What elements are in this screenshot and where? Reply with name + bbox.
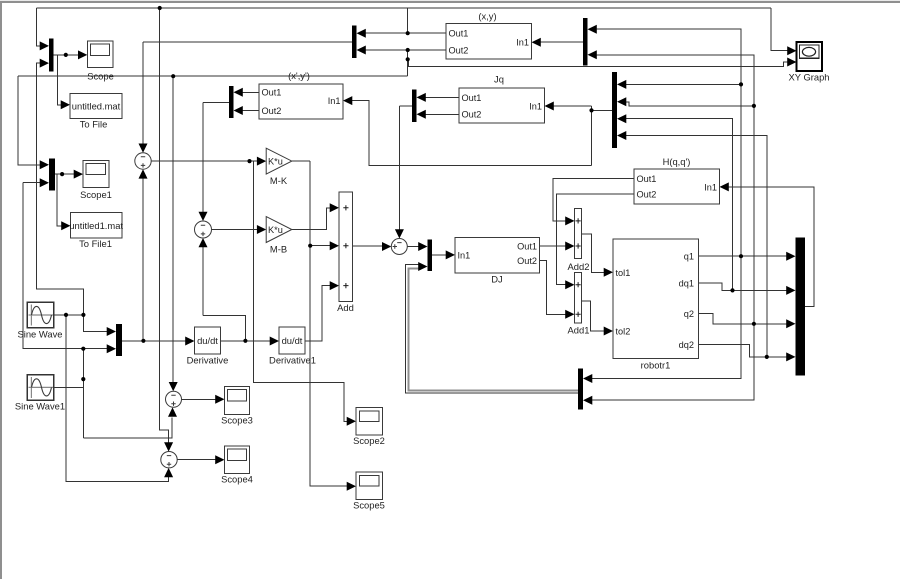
- svg-text:K*u: K*u: [268, 156, 283, 166]
- svg-text:Out2: Out2: [462, 110, 482, 120]
- svg-text:In1: In1: [328, 96, 341, 106]
- label Add: [337, 302, 354, 313]
- label Scope3: [221, 415, 253, 426]
- svg-text:M-B: M-B: [270, 243, 287, 254]
- label M-K: [270, 175, 288, 186]
- svg-text:To File1: To File1: [79, 238, 112, 249]
- wire M-B output to Add in1: [292, 208, 331, 230]
- wire Jq Out2 to mux7 in2: [426, 113, 460, 115]
- svg-text:q1: q1: [684, 252, 694, 262]
- svg-text:Derivative1: Derivative1: [269, 354, 316, 365]
- block Scope1: [83, 161, 109, 188]
- label Add1: [568, 324, 590, 335]
- wire net dq1: robotr1 dq1 to big mux in2 and MuxR in3: [626, 119, 788, 291]
- label DJ: [491, 274, 502, 285]
- wire MuxR output to Jq In1 and (x',y') In1: [352, 101, 613, 166]
- svg-text:Out2: Out2: [449, 45, 469, 55]
- label To File1: [79, 238, 112, 249]
- wire mux7 output to Sum3 top: [399, 106, 412, 231]
- block H(q,q') subsystem: [634, 169, 720, 204]
- wire DJ Out1 to Add2 in2: [540, 245, 567, 247]
- block Scope3: [225, 387, 250, 415]
- mux M2 scope1 mux: [49, 159, 55, 191]
- label Scope5: [353, 500, 385, 511]
- svg-text:Add2: Add2: [568, 261, 590, 272]
- sum S3: [391, 239, 407, 255]
- wire Sum5 output to Scope4: [177, 459, 216, 461]
- wire net q2: robotr1 q2 to big mux in3, MuxT in2, MuxR in2, MuxB in2: [592, 55, 788, 400]
- block Scope4: [225, 446, 250, 474]
- mux MBIG big right mux: [796, 238, 806, 376]
- wire net sine wave 1: to mux3 in2 rail and Sum4 plus: [55, 349, 173, 438]
- block Add: [339, 192, 353, 302]
- wire Sum1 output to M-K and Scope2 branch: [151, 161, 348, 421]
- svg-text:Scope3: Scope3: [221, 415, 253, 426]
- svg-text:untitled1.mat: untitled1.mat: [69, 220, 123, 231]
- ports (x',y'): [262, 88, 341, 116]
- svg-text:Scope2: Scope2: [353, 435, 385, 446]
- svg-text:Scope1: Scope1: [80, 189, 112, 200]
- mux M5 at (x,y): [352, 26, 357, 59]
- wire MuxT output to (x,y) In1: [540, 41, 583, 43]
- wire mux4 output to DJ In1: [432, 254, 447, 256]
- block Scope2: [356, 408, 383, 436]
- svg-text:Derivative: Derivative: [187, 354, 229, 365]
- label Sine Wave1: [15, 400, 65, 411]
- label Derivative: [187, 354, 229, 365]
- value du/dt Derivative1: [282, 335, 303, 346]
- wire net y: (x,y) Out2 to y=76 rail, Mux2 in1, Sum4 top, XY Graph in2: [18, 50, 788, 384]
- value du/dt Derivative: [197, 335, 218, 346]
- value untitled1.mat: [69, 220, 123, 231]
- wire net dq2: robotr1 dq2 to big mux in4 and MuxR in4: [626, 136, 788, 357]
- label Jq: [494, 74, 504, 85]
- ports H: [637, 174, 718, 200]
- wire net x: (x,y) Out1 to top rail, Mux1 in1, Sum5, XY Graph in1: [37, 8, 788, 444]
- label Derivative1: [269, 354, 316, 365]
- svg-text:To File: To File: [80, 118, 108, 129]
- wire MuxB output vector double line to mux4 in2: [406, 265, 578, 393]
- arrowheads right-pointing: [40, 41, 797, 490]
- block To File1 untitled1.mat: [71, 213, 123, 239]
- block Derivative1: [279, 327, 305, 354]
- svg-text:Out1: Out1: [262, 88, 282, 98]
- mux M6 at (x',y'): [229, 86, 234, 118]
- svg-text:Add1: Add1: [568, 324, 590, 335]
- label H(q,q'): [663, 156, 691, 167]
- wire Sum3 output to mux4 in1: [407, 246, 419, 248]
- svg-text:Scope: Scope: [87, 70, 114, 81]
- svg-text:K*u: K*u: [268, 225, 283, 235]
- wire H Out1 to Add2 in1: [553, 178, 634, 221]
- block Scope: [87, 41, 113, 67]
- block Scope5: [356, 472, 383, 500]
- block To File untitled.mat: [70, 94, 122, 119]
- svg-text:In1: In1: [704, 182, 717, 192]
- svg-text:tol2: tol2: [616, 326, 631, 336]
- wire Sum4 output to Scope3: [182, 398, 217, 400]
- label Add2: [568, 261, 590, 272]
- svg-text:Out1: Out1: [637, 174, 657, 184]
- wire M-K output to Add in2 and Scope5 branch: [292, 161, 348, 486]
- svg-text:XY Graph: XY Graph: [789, 72, 830, 83]
- svg-text:Sine Wave: Sine Wave: [18, 328, 63, 339]
- ports Jq: [462, 93, 543, 120]
- mux M7 at Jq: [412, 90, 417, 123]
- label To File: [80, 118, 108, 129]
- block Sine Wave: [27, 302, 54, 328]
- svg-text:Scope4: Scope4: [221, 474, 253, 485]
- svg-text:Scope5: Scope5: [353, 500, 385, 511]
- mux MB bottom feedback mux: [578, 369, 583, 410]
- label Scope: [87, 70, 114, 81]
- sum S2: [195, 221, 212, 238]
- sum S5: [161, 452, 177, 468]
- svg-text:tol1: tol1: [616, 268, 631, 278]
- wire Sum2 output to M-B: [212, 229, 259, 231]
- wire Derivative output branch to Sum2 plus: [203, 246, 245, 341]
- svg-text:Out2: Out2: [517, 256, 537, 266]
- wire DJ Out2 to Add1 in2: [540, 261, 567, 315]
- block XY Graph: [797, 42, 823, 71]
- svg-text:M-K: M-K: [270, 175, 288, 186]
- gain M-K: [266, 148, 292, 174]
- mux M4 before DJ: [428, 240, 433, 272]
- svg-text:(x,y): (x,y): [478, 11, 496, 22]
- ports DJ: [458, 241, 538, 266]
- svg-text:Sine Wave1: Sine Wave1: [15, 400, 65, 411]
- mux M3 sine mux: [116, 324, 122, 356]
- svg-text:In1: In1: [529, 101, 542, 111]
- block (x',y') subsystem: [259, 84, 343, 119]
- wire mux1 output to Scope and To File: [54, 55, 80, 105]
- wire net q1: robotr1 q1 to big mux in1, MuxT in1, MuxR in1, MuxB in1: [592, 29, 788, 378]
- block DJ: [455, 238, 540, 274]
- svg-text:du/dt: du/dt: [282, 335, 303, 346]
- label Scope2: [353, 435, 385, 446]
- label Sine Wave: [18, 328, 63, 339]
- svg-text:Out2: Out2: [262, 106, 282, 116]
- wire (x',y') Out2 to mux6 in2: [243, 110, 260, 112]
- wire (x',y') Out1 to mux6 in1: [243, 91, 260, 93]
- svg-text:Jq: Jq: [494, 74, 504, 85]
- wire Add2 output to robotr1 tol1: [582, 234, 606, 272]
- ports robotr1: [616, 252, 695, 350]
- svg-text:DJ: DJ: [491, 274, 502, 285]
- label Scope4: [221, 474, 253, 485]
- wire net mux2 in2 / mux3 in2 rail: [23, 183, 109, 349]
- sum S1: [135, 153, 151, 169]
- wire Jq Out1 to mux7 in1: [426, 96, 460, 98]
- svg-text:untitled.mat: untitled.mat: [72, 101, 121, 112]
- wire Add output to Sum3: [353, 245, 384, 247]
- label (x,y): [478, 11, 496, 22]
- svg-text:Out1: Out1: [517, 241, 537, 251]
- arrowheads down-pointing into sum junctions: [139, 144, 404, 452]
- label XY Graph: [789, 72, 830, 83]
- wire Add1 output to robotr1 tol2: [582, 301, 606, 331]
- svg-text:dq1: dq1: [679, 278, 694, 288]
- svg-text:In1: In1: [458, 250, 471, 260]
- wire mux6 output to Sum2 top: [203, 102, 229, 213]
- wire net sine wave: to mux1 in2, mux3 in1, Sum5 plus: [36, 63, 168, 481]
- label M-B: [270, 243, 287, 254]
- value untitled.mat: [72, 101, 121, 112]
- mux M1 top-left scope mux: [49, 39, 54, 72]
- block Derivative: [195, 327, 221, 354]
- wire H Out2 to Add1 in1: [557, 194, 635, 285]
- arrowheads left-pointing: [234, 25, 729, 405]
- sum S4: [166, 391, 182, 407]
- svg-text:robotr1: robotr1: [641, 360, 671, 371]
- block Add1: [575, 273, 582, 324]
- wire mux2 output to Scope1 and To File1: [55, 174, 75, 226]
- svg-text:(x',y'): (x',y'): [288, 70, 310, 81]
- block robotr1 subsystem: [613, 239, 699, 359]
- mux MR right 4-input mux: [612, 72, 617, 148]
- block Jq subsystem: [459, 88, 545, 123]
- svg-text:du/dt: du/dt: [197, 335, 218, 346]
- svg-text:q2: q2: [684, 309, 694, 319]
- svg-text:Out1: Out1: [462, 93, 482, 103]
- wire mux3 output to Derivative, Sum1 plus, Derivative1, Add in3: [122, 178, 331, 342]
- label (x',y'): [288, 70, 310, 81]
- block Sine Wave1: [27, 375, 54, 401]
- svg-text:In1: In1: [516, 38, 529, 48]
- block (x,y) subsystem: [446, 24, 532, 59]
- ports (x,y): [449, 29, 530, 56]
- label robotr1: [641, 360, 671, 371]
- gain M-B: [266, 217, 292, 243]
- svg-text:Out1: Out1: [449, 29, 469, 39]
- mux MT top feed mux: [583, 18, 588, 66]
- arrowheads up-pointing into sum junctions: [139, 169, 208, 477]
- wire big mux output to H In1: [728, 187, 814, 306]
- label Scope1: [80, 189, 112, 200]
- wire mux5 output to Sum1 top: [143, 42, 352, 145]
- svg-text:Add: Add: [337, 302, 354, 313]
- svg-text:dq2: dq2: [679, 340, 694, 350]
- svg-text:H(q,q'): H(q,q'): [663, 156, 691, 167]
- svg-text:Out2: Out2: [637, 189, 657, 199]
- block Add2: [575, 209, 582, 259]
